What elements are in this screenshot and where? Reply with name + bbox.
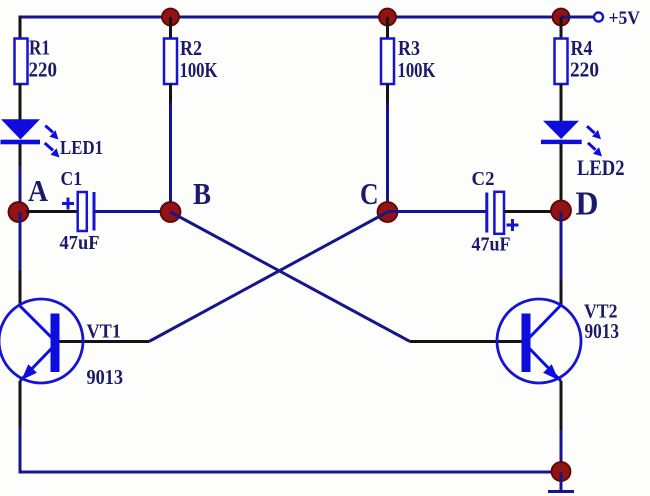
node C dot <box>378 202 398 222</box>
svg-text:B: B <box>193 176 211 211</box>
junction dot rail R4 <box>553 9 570 26</box>
node B dot <box>161 202 181 222</box>
svg-text:R2: R2 <box>180 36 202 60</box>
svg-text:VT1: VT1 <box>87 321 122 343</box>
ground <box>548 472 574 492</box>
wire R1 to LED1 <box>19 84 22 121</box>
wire VT2 base lead <box>410 340 522 343</box>
svg-text:9013: 9013 <box>87 365 124 389</box>
wire C2 to node D <box>504 210 561 213</box>
svg-text:47uF: 47uF <box>472 234 511 256</box>
wire C1 to node B <box>94 210 171 213</box>
wire top +5V rail <box>19 16 595 19</box>
wire left vertical rail to R1 <box>19 16 22 40</box>
svg-text:9013: 9013 <box>585 319 620 343</box>
junction dot rail R3 <box>379 9 396 26</box>
resistor R2 <box>164 39 177 85</box>
transistor VT2 <box>497 299 581 383</box>
wire VT2 emitter down <box>560 381 563 430</box>
node A dot <box>9 202 29 222</box>
resistor R3 <box>381 39 394 85</box>
wire rail to R2 <box>169 17 172 39</box>
svg-text:+5V: +5V <box>609 8 641 29</box>
transistor VT1 <box>0 299 83 383</box>
LED LED1 <box>1 119 60 157</box>
wire R3 lead <box>386 84 389 103</box>
wire rail to R3 <box>386 17 389 39</box>
wire LED2 to node D <box>560 144 563 212</box>
wire VT2 collector entry <box>560 280 563 305</box>
wire node C cross to VT1 base <box>149 212 388 342</box>
svg-text:R4: R4 <box>571 36 593 60</box>
+5V terminal circle <box>594 13 603 22</box>
svg-text:LED1: LED1 <box>60 137 103 159</box>
svg-text:100K: 100K <box>398 58 437 82</box>
svg-text:A: A <box>28 173 49 208</box>
node D dot <box>551 201 571 221</box>
wire VT1 collector entry <box>19 270 22 306</box>
svg-text:220: 220 <box>29 58 58 82</box>
wire VT2 emitter to bottom rail <box>560 430 563 472</box>
wire R4 to LED2 <box>560 84 563 122</box>
junction dot rail R2 <box>162 9 179 26</box>
junction dot bottom rail <box>552 462 571 481</box>
wire node D to VT2 collector <box>560 212 563 280</box>
resistor R4 <box>555 39 568 85</box>
wire R3 to node C <box>386 103 389 212</box>
svg-text:R3: R3 <box>398 36 420 60</box>
resistor R1 <box>15 39 28 85</box>
wire R2 lead <box>169 84 172 103</box>
svg-text:C: C <box>360 176 379 211</box>
svg-text:C1: C1 <box>61 168 83 190</box>
wire into node A <box>19 166 22 212</box>
LED LED2 <box>541 121 602 157</box>
wire node A to C1 <box>26 210 79 213</box>
svg-text:R1: R1 <box>29 36 50 60</box>
capacitor C2 <box>487 192 519 234</box>
wire rail to +5V circle <box>561 16 594 19</box>
wire VT1 base lead <box>59 340 149 343</box>
wire VT1 emitter to bottom rail <box>19 427 22 472</box>
wire bottom rail <box>19 471 562 474</box>
svg-text:C2: C2 <box>472 168 495 190</box>
wire R2 to node B <box>169 103 172 212</box>
wire rail to R4 <box>560 17 563 39</box>
svg-text:LED2: LED2 <box>577 155 625 180</box>
svg-text:220: 220 <box>570 58 599 82</box>
svg-text:100K: 100K <box>180 58 219 82</box>
svg-text:D: D <box>576 186 599 223</box>
svg-text:47uF: 47uF <box>60 232 100 254</box>
wire node C to C2 <box>388 210 488 213</box>
wire node A to VT1 collector <box>19 212 22 270</box>
wire VT1 emitter down <box>19 381 22 427</box>
wire LED1 to node A <box>19 144 22 166</box>
capacitor C1 <box>62 192 94 231</box>
wire node B cross to VT2 base <box>171 212 411 342</box>
